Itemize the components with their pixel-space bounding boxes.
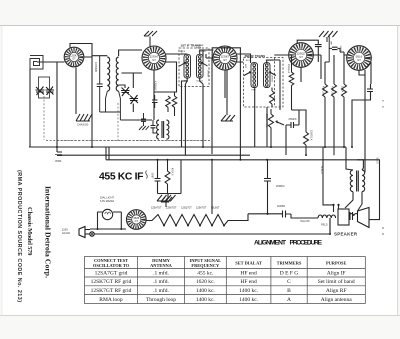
resistor 1MEG AVC <box>270 88 275 108</box>
chassis ground left <box>76 114 92 121</box>
svg-text:CHASSIS: CHASSIS <box>77 123 89 127</box>
svg-text:(RMA PRODUCTION SOURCE CODE No: (RMA PRODUCTION SOURCE CODE No. 213) <box>16 170 22 302</box>
junction dots main <box>56 146 353 235</box>
label FIELD <box>321 225 328 227</box>
svg-text:ALIGNMENT: ALIGNMENT <box>254 240 286 247</box>
svg-text:.1 mfd.: .1 mfd. <box>153 278 169 285</box>
wire L corner <box>106 147 109 160</box>
svg-text:GT: GT <box>152 58 156 62</box>
svg-text:GT: GT <box>135 220 139 223</box>
svg-text:180.A: 180.A <box>341 86 344 93</box>
wire coil bottoms <box>100 85 152 120</box>
volume control 500K <box>269 109 285 147</box>
wire left drop A <box>29 69 31 147</box>
svg-text:.05MFD: .05MFD <box>339 45 341 53</box>
wire plug to set <box>90 212 330 234</box>
2nd IF tuning arrows <box>244 72 276 76</box>
heater labels <box>151 207 220 210</box>
svg-text:GREEN: GREEN <box>271 75 273 83</box>
svg-text:100MMF: 100MMF <box>94 62 98 73</box>
margin label: International Detrola Corp. <box>43 186 52 278</box>
resistor 470K a <box>323 84 328 147</box>
svg-text:1400 kc.: 1400 kc. <box>239 288 259 294</box>
svg-text:.1 mfd.: .1 mfd. <box>153 269 169 276</box>
label CHASSIS <box>77 123 89 127</box>
resistor 10MEG <box>304 125 309 155</box>
bus wire B minus <box>29 146 346 148</box>
tube V4 12SQ7GT det-AVC <box>289 43 314 68</box>
svg-text:BLUE: BLUE <box>376 158 379 165</box>
svg-text:6-8V MAZDA: 6-8V MAZDA <box>100 200 114 203</box>
label YELLOW <box>300 221 310 223</box>
voice coil <box>349 212 359 220</box>
svg-text:1MEG.A: 1MEG.A <box>287 64 290 73</box>
brace 455 <box>146 171 148 179</box>
margin label: Chassis Model 579 <box>26 207 33 256</box>
svg-text:12SQ7GT: 12SQ7GT <box>181 207 192 210</box>
1st IF secondary winding <box>197 54 204 78</box>
AC plug <box>79 227 94 238</box>
resistor 470K 455 <box>165 160 170 194</box>
svg-text:1400 kc.: 1400 kc. <box>196 297 216 303</box>
svg-text:Align IF: Align IF <box>327 270 346 276</box>
svg-text:SET DIAL AT: SET DIAL AT <box>235 261 262 266</box>
wire V1 plate to coil <box>84 50 142 57</box>
padder cap osc <box>151 120 158 133</box>
svg-text:40MFD: 40MFD <box>277 205 285 208</box>
svg-text:A: A <box>287 297 291 303</box>
svg-text:D E F G: D E F G <box>280 270 299 276</box>
svg-text:HF end: HF end <box>240 279 257 285</box>
svg-text:50L6: 50L6 <box>356 55 363 59</box>
svg-text:.05MF.: .05MF. <box>55 160 63 163</box>
output transformer primary <box>350 170 358 192</box>
label SPEAKER <box>334 232 358 237</box>
speaker cone <box>358 208 370 228</box>
electrolytic 20MFD <box>248 160 283 214</box>
grid coupling cap 100MMF <box>97 56 103 112</box>
svg-text:Set limit of band: Set limit of band <box>318 278 355 285</box>
wire right B plus <box>330 160 380 234</box>
cap labels near V5 <box>330 40 342 53</box>
alignment table <box>85 257 366 304</box>
svg-text:.1MF: .1MF <box>330 40 332 46</box>
wire V4 to V5 top <box>325 52 347 84</box>
resistor 470K b <box>332 84 337 155</box>
svg-text:1400 kc.: 1400 kc. <box>196 288 216 294</box>
svg-text:455 kc.: 455 kc. <box>197 270 214 276</box>
ground small below V2 <box>139 126 149 130</box>
svg-text:B: B <box>287 288 291 294</box>
wire V2 to IF1 <box>154 54 187 120</box>
svg-text:MICA: MICA <box>196 47 202 50</box>
osc grid resistor <box>166 96 171 112</box>
title ALIGNMENT PROCEDURE <box>254 240 323 247</box>
label 05MF3 <box>55 160 63 163</box>
svg-text:.1 mfd.: .1 mfd. <box>153 287 169 294</box>
svg-text:RED: RED <box>244 64 246 69</box>
table body text <box>91 269 355 303</box>
svg-text:GREEN: GREEN <box>207 70 209 78</box>
svg-text:2ND IF TRANS: 2ND IF TRANS <box>245 54 266 58</box>
bus wire low <box>106 159 365 161</box>
svg-text:C: C <box>287 279 291 285</box>
label 100MMF vertical <box>94 62 98 73</box>
tube V3 12SK7GT IF <box>213 46 237 70</box>
svg-text:TRIMMERS: TRIMMERS <box>277 261 302 266</box>
wire drops to bus <box>203 58 267 160</box>
antenna coil L1 primary <box>106 57 110 112</box>
label 470MMF <box>154 81 157 91</box>
label 1MEG <box>287 64 290 73</box>
svg-text:YELLOW: YELLOW <box>300 221 310 223</box>
label AC-DC <box>62 228 70 235</box>
label 10MEG <box>310 130 313 141</box>
osc resistor 2 <box>166 92 177 116</box>
wire V4 drop <box>280 60 301 110</box>
wire coil tap to trimmer <box>122 73 143 88</box>
wire trans connections <box>345 147 363 211</box>
cap .05MF 455 <box>155 160 161 194</box>
bus dashed chassis line <box>57 140 210 142</box>
svg-text:.05MFD: .05MFD <box>288 118 297 121</box>
svg-text:12SK7GT RF grid: 12SK7GT RF grid <box>91 288 132 294</box>
2nd IF lead labels <box>246 60 273 92</box>
oscillator coil <box>157 120 169 139</box>
1st IF tuning arrows <box>180 62 208 66</box>
ground below 455KC components <box>157 195 176 201</box>
svg-text:GT: GT <box>223 58 227 62</box>
cap .05 coupling <box>329 47 340 52</box>
svg-text:BLACK: BLACK <box>320 166 323 174</box>
svg-text:10MEG.A: 10MEG.A <box>310 130 313 141</box>
loop antenna spiral <box>30 56 43 70</box>
1st IF primary winding <box>184 54 191 78</box>
svg-text:Align antenna: Align antenna <box>321 297 353 303</box>
table header text <box>93 258 347 268</box>
cap .05 det <box>286 122 299 128</box>
label dial light <box>100 196 114 203</box>
svg-text:BLUE: BLUE <box>180 50 182 56</box>
2nd IF primary winding <box>251 63 258 88</box>
wire box over V3 <box>212 48 240 58</box>
tube V1 12SK7GT RF <box>64 47 84 67</box>
osc grid cap <box>152 95 158 108</box>
label BLACK <box>320 166 323 174</box>
cap below V2 <box>141 113 146 126</box>
wire IF1 bottoms <box>182 78 204 155</box>
label BLUE <box>376 158 379 165</box>
wire V5 sides <box>352 62 371 172</box>
svg-text:1400 kc.: 1400 kc. <box>239 297 259 303</box>
wire 455 join ground <box>158 160 182 197</box>
svg-text:20MFD: 20MFD <box>276 184 285 188</box>
wire V6 top <box>98 212 127 229</box>
ground top right of V4 <box>319 31 338 42</box>
wire V3 cathode <box>203 50 227 154</box>
svg-text:12SA7GT grid: 12SA7GT grid <box>95 270 128 276</box>
1st IF lead labels <box>180 51 206 83</box>
svg-text:International Detrola Corp.: International Detrola Corp. <box>43 186 52 278</box>
wire BLACK primary lead <box>323 147 339 212</box>
tuning gang trimmer A <box>36 87 45 96</box>
svg-text:470K.A: 470K.A <box>331 86 334 94</box>
2nd IF transformer shield box <box>244 54 284 107</box>
cap line filter <box>55 152 62 156</box>
wire IF2 to V4 <box>267 55 289 63</box>
cap C-grid V5 <box>315 35 329 63</box>
label 05MF vertical <box>151 172 153 179</box>
tuning gang trimmer B <box>46 87 55 96</box>
svg-text:RMA loop: RMA loop <box>99 297 123 303</box>
svg-text:GT: GT <box>357 58 361 62</box>
speaker frame box <box>338 209 349 225</box>
T1 cathode stem <box>75 68 77 115</box>
svg-text:SPEAKER: SPEAKER <box>334 232 358 237</box>
resistor labels vertical <box>322 86 344 94</box>
svg-text:12SK7GT: 12SK7GT <box>196 207 207 210</box>
shield rect left <box>39 77 50 98</box>
svg-text:12SA7: 12SA7 <box>149 55 158 59</box>
svg-text:Align RF: Align RF <box>326 288 347 294</box>
gang dashed link <box>44 96 212 141</box>
svg-text:HF end: HF end <box>240 270 257 276</box>
svg-text:12SK7GT RF grid: 12SK7GT RF grid <box>91 279 132 285</box>
margin label: RMA production source code <box>16 170 22 302</box>
svg-text:12SA7GT: 12SA7GT <box>151 207 162 210</box>
label 40MFD <box>277 205 285 208</box>
field coil <box>318 215 336 218</box>
wire det drops <box>286 55 306 155</box>
label above IF2 <box>196 45 204 50</box>
svg-text:GT: GT <box>299 55 303 59</box>
wire bus to heater <box>211 160 213 214</box>
1st IF transformer shield box <box>179 44 209 87</box>
wire V1 top cap <box>70 44 92 148</box>
RF trimmer C <box>121 87 130 96</box>
wire loop to V1 grid <box>37 61 65 63</box>
wire V4 region <box>297 40 321 79</box>
svg-text:GT: GT <box>72 58 76 61</box>
tube V6 35Z5GT rectifier <box>127 210 147 230</box>
svg-text:FIELD: FIELD <box>321 225 328 227</box>
wire to field <box>291 214 318 218</box>
2nd IF secondary winding <box>264 63 271 88</box>
binding marks <box>382 100 384 235</box>
svg-text:12SK7GT: 12SK7GT <box>166 207 177 210</box>
svg-text:1620 kc.: 1620 kc. <box>196 279 216 285</box>
cap V5 cathode <box>367 84 373 96</box>
chain junction dots <box>163 225 225 227</box>
label volume <box>265 114 268 128</box>
dial light circle <box>102 209 112 219</box>
svg-text:Chassis Model 579: Chassis Model 579 <box>26 207 33 256</box>
resistor 1MEG diode load <box>289 62 299 110</box>
tube V2 12SA7GT converter <box>142 46 166 70</box>
svg-text:ANTENNA: ANTENNA <box>150 263 173 268</box>
svg-text:RED: RED <box>252 90 257 92</box>
svg-text:FREQUENCY: FREQUENCY <box>191 263 220 268</box>
padder trimmer <box>130 95 139 104</box>
ground top above V2 <box>144 31 157 46</box>
svg-text:PURPOSE: PURPOSE <box>326 261 347 266</box>
antenna coil L1 secondary <box>116 57 120 120</box>
svg-text:PROCEDURE: PROCEDURE <box>290 240 323 247</box>
label CAP05 <box>288 118 297 121</box>
ballast resistor chain <box>146 214 248 226</box>
svg-text:12SQ7: 12SQ7 <box>296 52 306 56</box>
electrolytic 40MFD <box>283 211 292 218</box>
wire IF1 to V3 <box>200 50 214 58</box>
ground heater area <box>161 197 172 207</box>
tube V5 50L6GT output <box>347 46 372 71</box>
label 470 vertical <box>171 168 174 176</box>
svg-text:12SK7: 12SK7 <box>220 55 229 59</box>
wire V3 to IF2 <box>237 54 251 63</box>
svg-text:.05MF: .05MF <box>151 172 153 179</box>
ground below V3 <box>221 110 235 121</box>
svg-text:470K.A: 470K.A <box>171 168 174 176</box>
resistor 180 ohm <box>342 84 347 147</box>
svg-text:Through loop: Through loop <box>146 297 176 303</box>
svg-text:AC-DC: AC-DC <box>62 231 70 235</box>
IF color labels <box>180 50 273 83</box>
annotation 455 KC IF <box>99 172 144 183</box>
label 20MFD <box>276 184 285 188</box>
svg-text:455 KC IF: 455 KC IF <box>99 172 144 183</box>
wire left drop B <box>56 62 58 152</box>
bus wire mid <box>62 154 250 156</box>
svg-text:470K.A: 470K.A <box>322 86 325 94</box>
output transformer secondary <box>362 170 365 192</box>
svg-text:OSCILLATOR TO: OSCILLATOR TO <box>93 263 130 268</box>
